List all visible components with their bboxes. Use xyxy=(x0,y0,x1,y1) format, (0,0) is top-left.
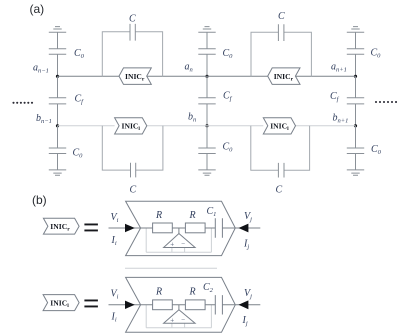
svg-text:Ii: Ii xyxy=(111,235,117,247)
resistor R1 row1 xyxy=(153,223,173,233)
svg-text:R: R xyxy=(189,210,196,221)
ground bottom of middle rung xyxy=(198,170,215,175)
ground top of left rung xyxy=(49,27,66,33)
svg-text:Cf: Cf xyxy=(75,94,85,106)
svg-text:Cf: Cf xyxy=(223,91,233,103)
ground bottom of right rung xyxy=(347,170,364,175)
capacitor C1 row1 xyxy=(215,218,222,237)
wire xyxy=(355,76,357,98)
wire b-line to middle xyxy=(147,125,207,127)
INIC-l block left (a) xyxy=(115,118,147,134)
wire b-line left segment xyxy=(58,125,115,127)
svg-text:Vj: Vj xyxy=(244,211,252,223)
wire output row1 xyxy=(235,227,260,229)
feedback rail row1 xyxy=(146,228,211,252)
wire a-line to middle xyxy=(147,75,207,77)
wire left rung top xyxy=(57,32,59,48)
svg-text:C0: C0 xyxy=(371,48,382,60)
ellipsis dots left xyxy=(12,102,33,104)
arrow input row1 xyxy=(125,224,135,232)
wire xyxy=(57,126,59,148)
equals sign row1 xyxy=(84,224,98,232)
wire input row1 xyxy=(109,227,141,229)
wire a-line from middle xyxy=(207,75,268,77)
capacitor C0 bottom-middle xyxy=(198,148,215,154)
wire xyxy=(57,104,59,126)
wire xyxy=(57,154,59,170)
resistor R3 row2 xyxy=(153,300,173,310)
svg-text:Vj: Vj xyxy=(244,288,252,300)
wire right rung top xyxy=(355,32,357,48)
wire input row2 xyxy=(109,304,141,306)
svg-text:an−1: an−1 xyxy=(33,63,49,75)
loop lower-right xyxy=(251,126,310,171)
capacitor C0 top-middle xyxy=(198,49,215,55)
svg-text:Ij: Ij xyxy=(243,239,249,251)
svg-text:R: R xyxy=(155,287,162,298)
capacitor C upper-right xyxy=(278,24,284,41)
node a_n xyxy=(205,75,208,78)
arrow input row2 xyxy=(125,301,135,309)
svg-text:C: C xyxy=(276,185,283,196)
wire b-line to right rung xyxy=(296,125,356,127)
svg-text:+: + xyxy=(170,241,174,249)
svg-text:C: C xyxy=(130,185,137,196)
wire xyxy=(206,154,208,170)
resistor R2 row1 xyxy=(185,223,205,233)
capacitor C2 row2 xyxy=(215,295,222,314)
svg-text:bn−1: bn−1 xyxy=(36,113,52,125)
wire a-line to right rung xyxy=(295,75,355,77)
wire xyxy=(355,104,357,126)
op-amp U1 row1 xyxy=(164,234,196,248)
wire xyxy=(57,54,59,76)
op-amp polarity labels row2 xyxy=(170,316,185,324)
svg-text:an: an xyxy=(185,62,193,74)
capacitor C lower-left xyxy=(131,163,136,178)
node a_n+1 xyxy=(354,75,357,78)
feedback rail row2 xyxy=(146,305,211,328)
capacitor C upper-left xyxy=(130,24,135,41)
svg-text:C0: C0 xyxy=(223,142,234,154)
wire xyxy=(206,54,208,76)
wire internal row1 xyxy=(141,228,236,234)
resistor R4 row2 xyxy=(185,300,205,310)
wire middle rung top xyxy=(206,32,208,48)
capacitor C0 top-left xyxy=(49,49,66,55)
capacitor Cf left xyxy=(49,98,66,104)
capacitor C0 bottom-left xyxy=(49,148,66,154)
svg-text:−: − xyxy=(181,316,185,324)
svg-text:INICl: INICl xyxy=(50,298,69,309)
ground bottom of left rung xyxy=(49,170,66,175)
wire xyxy=(355,126,357,148)
svg-text:C0: C0 xyxy=(223,48,234,60)
arrow output row2 xyxy=(239,300,249,309)
svg-text:bn+1: bn+1 xyxy=(333,113,349,125)
capacitor Cf middle xyxy=(198,98,215,104)
svg-text:Vi: Vi xyxy=(111,212,119,224)
svg-text:bn: bn xyxy=(188,112,196,124)
svg-text:−: − xyxy=(181,240,185,248)
equals sign row2 xyxy=(84,300,98,308)
svg-text:C: C xyxy=(129,14,136,25)
INICl symbol (b) row2 xyxy=(43,295,79,311)
arrow output row1 xyxy=(239,224,249,233)
op-amp input stubs row1 xyxy=(172,248,185,253)
wire xyxy=(206,76,208,98)
INIC-r block left (a) xyxy=(119,68,151,85)
wire xyxy=(355,154,357,170)
wire xyxy=(57,76,59,98)
op-amp U2 row2 xyxy=(164,310,196,324)
loop upper-right xyxy=(251,32,311,76)
svg-text:Cf: Cf xyxy=(330,91,340,103)
capacitor C lower-right xyxy=(278,163,284,178)
svg-text:(a): (a) xyxy=(30,2,45,16)
wire internal row2 xyxy=(141,305,236,310)
wire a-line left segment xyxy=(58,75,120,77)
svg-text:an+1: an+1 xyxy=(331,62,347,74)
svg-text:C0: C0 xyxy=(74,48,85,60)
svg-text:+: + xyxy=(170,316,174,324)
INICr symbol (b) row1 xyxy=(43,218,79,234)
ground top of middle rung xyxy=(198,27,215,33)
wire b-line from middle xyxy=(207,125,263,127)
ellipsis dots right xyxy=(375,101,397,103)
ground top of right rung xyxy=(347,27,364,33)
svg-text:C0: C0 xyxy=(73,148,84,160)
op-amp input stubs row2 xyxy=(172,323,185,328)
wire xyxy=(206,126,208,148)
INIC-l block right (a) xyxy=(263,118,295,134)
capacitor C0 bottom-right xyxy=(347,148,364,154)
node a_n-1 xyxy=(56,75,59,78)
INIC body outline row2 xyxy=(126,277,236,332)
svg-text:Vi: Vi xyxy=(111,289,119,301)
svg-text:Ij: Ij xyxy=(242,315,248,327)
node b_n xyxy=(205,124,208,127)
svg-text:C: C xyxy=(278,11,285,22)
op-amp polarity labels row1 xyxy=(170,240,185,248)
loop upper-left xyxy=(102,32,162,77)
capacitor Cf right xyxy=(347,98,364,104)
INIC-r block right (a) xyxy=(268,68,300,85)
wire xyxy=(206,104,208,126)
wire output row2 xyxy=(235,304,260,306)
svg-text:C0: C0 xyxy=(371,144,382,156)
svg-text:R: R xyxy=(155,210,162,221)
capacitor C0 top-right xyxy=(347,49,364,55)
svg-text:R: R xyxy=(189,287,196,298)
node b_n-1 xyxy=(56,124,59,127)
node b_n+1 xyxy=(354,124,357,127)
underline row1 xyxy=(125,267,217,269)
svg-text:Ii: Ii xyxy=(111,312,117,324)
svg-text:(b): (b) xyxy=(32,193,47,207)
INIC body outline row1 xyxy=(126,201,236,255)
loop lower-left xyxy=(102,126,163,170)
wire xyxy=(355,54,357,76)
